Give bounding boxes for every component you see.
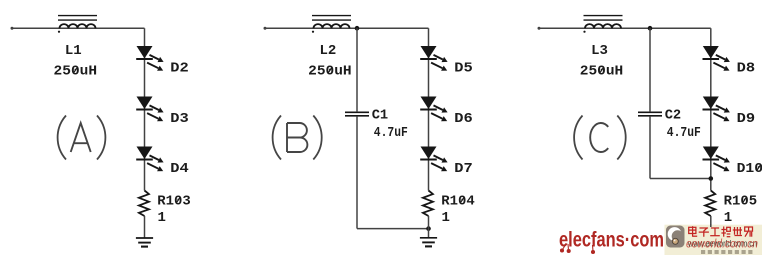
svg-text:L3: L3: [591, 43, 608, 59]
svg-text:4.7uF: 4.7uF: [667, 125, 701, 141]
svg-text:D3: D3: [170, 111, 189, 127]
svg-text:L2: L2: [319, 43, 336, 59]
svg-text:C1: C1: [372, 108, 389, 124]
svg-text:250uH: 250uH: [308, 64, 352, 80]
svg-text:D5: D5: [454, 61, 473, 77]
svg-text:250uH: 250uH: [580, 64, 624, 80]
svg-text:eeworld.com.cn: eeworld.com.cn: [686, 238, 758, 250]
svg-text:1: 1: [158, 210, 166, 226]
svg-text:C2: C2: [665, 108, 682, 124]
svg-text:D6: D6: [454, 111, 473, 127]
svg-text:4.7uF: 4.7uF: [374, 125, 408, 141]
svg-text:elecfans·com: elecfans·com: [559, 228, 664, 251]
svg-text:1: 1: [724, 210, 732, 226]
svg-text:D2: D2: [170, 61, 189, 77]
svg-text:R103: R103: [157, 194, 191, 210]
svg-text:250uH: 250uH: [54, 64, 98, 80]
svg-text:D4: D4: [170, 161, 189, 177]
svg-text:R104: R104: [441, 194, 475, 210]
svg-text:1: 1: [442, 210, 450, 226]
svg-text:D8: D8: [737, 61, 756, 77]
svg-text:L1: L1: [65, 43, 82, 59]
svg-text:R105: R105: [724, 194, 758, 210]
svg-text:D9: D9: [737, 111, 756, 127]
svg-text:D7: D7: [454, 161, 473, 177]
